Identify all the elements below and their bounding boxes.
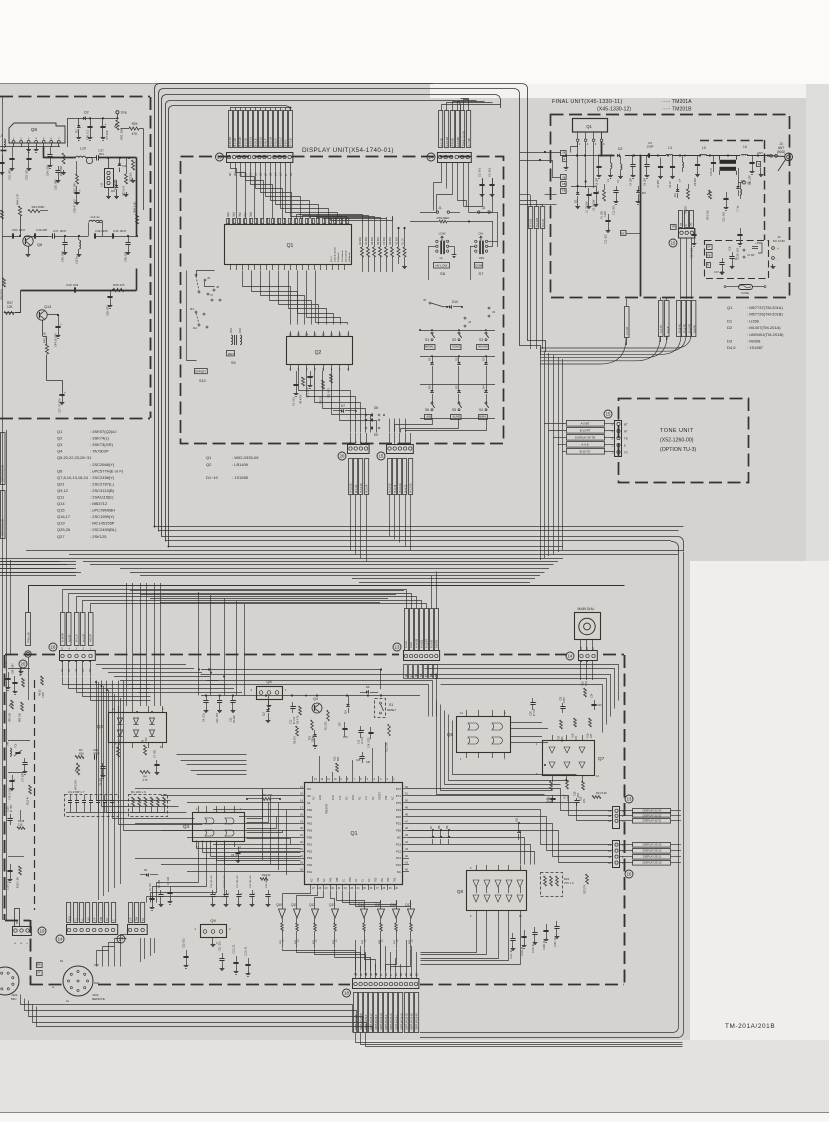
svg-text:C6 18P: C6 18P bbox=[644, 178, 647, 186]
jack J1 SP bbox=[743, 249, 745, 251]
svg-text:Q25,26: Q25,26 bbox=[57, 527, 71, 532]
svg-text:: TA7302P: : TA7302P bbox=[90, 449, 109, 454]
page edge line bottom bbox=[0, 1112, 829, 1114]
svg-text:R54 3.3K: R54 3.3K bbox=[133, 202, 137, 213]
connector 13 lower pin bar bbox=[404, 651, 440, 661]
svg-text:J11: J11 bbox=[193, 326, 198, 330]
capacitor C34 .022 bbox=[50, 147, 52, 155]
wires buffers to bottom connector bbox=[283, 949, 356, 971]
svg-text:23: 23 bbox=[300, 847, 303, 851]
svg-text:R14: R14 bbox=[558, 735, 561, 740]
svg-text:J3: J3 bbox=[492, 310, 495, 314]
svg-text:4D: 4D bbox=[228, 173, 232, 176]
svg-text:AL/M5: AL/M5 bbox=[452, 414, 460, 418]
svg-text:50: 50 bbox=[405, 799, 408, 803]
svg-text:(50Ω): (50Ω) bbox=[777, 150, 785, 154]
nested wire loops left of Q6 bbox=[437, 701, 545, 795]
control rail wire bbox=[201, 695, 420, 697]
resistor R9 470K bbox=[302, 377, 305, 386]
IC Q7 buffers bbox=[543, 741, 595, 776]
electrolytic C1 10/16V bbox=[588, 188, 590, 194]
svg-text:R8 330: R8 330 bbox=[389, 237, 392, 245]
svg-text:R44 2.7K: R44 2.7K bbox=[16, 194, 20, 205]
svg-text:TB: TB bbox=[624, 437, 628, 441]
svg-text:+: + bbox=[105, 123, 107, 127]
capacitor C35 .082 bbox=[58, 166, 60, 171]
capacitor C22 470P bbox=[562, 703, 564, 707]
junction dots texture bbox=[198, 669, 200, 671]
svg-text:FINAL UNIT(X45-1330-11): FINAL UNIT(X45-1330-11) bbox=[552, 99, 623, 105]
svg-text:DO: DO bbox=[87, 917, 90, 921]
wires Q1 bottom to buffers bbox=[283, 891, 311, 901]
svg-text:COM: COM bbox=[475, 263, 483, 267]
svg-text:DISPLAY-25-10: DISPLAY-25-10 bbox=[643, 861, 662, 865]
svg-text:+: + bbox=[79, 189, 81, 193]
svg-text:10: 10 bbox=[338, 332, 342, 336]
diode D6 ctrl bbox=[360, 692, 366, 694]
capacitor C37 .001 bbox=[93, 157, 97, 159]
resistor R13 82K bbox=[336, 763, 339, 772]
svg-text:C15 .001: C15 .001 bbox=[723, 211, 726, 222]
svg-text:: MC145155P: : MC145155P bbox=[90, 521, 115, 526]
svg-text:D1 Anode: D1 Anode bbox=[337, 252, 340, 262]
diode D2 final bbox=[617, 154, 619, 158]
keypad matrix wires bbox=[420, 330, 495, 332]
svg-text:41: 41 bbox=[405, 861, 408, 865]
svg-text:24: 24 bbox=[300, 854, 303, 858]
wires Q8 bottom to bottom bank bbox=[421, 917, 477, 953]
svg-text:Q2: Q2 bbox=[97, 724, 104, 729]
potentiometer VR1 50K bbox=[76, 763, 79, 775]
svg-text:82K: 82K bbox=[79, 752, 84, 756]
fuse bbox=[739, 285, 753, 290]
boxed pin B bbox=[707, 263, 711, 268]
connector 15 below display unit bbox=[387, 445, 414, 454]
svg-text:NC: NC bbox=[392, 796, 395, 800]
svg-text:C36 47 16V: C36 47 16V bbox=[73, 199, 77, 213]
svg-text:+T: +T bbox=[755, 241, 759, 245]
svg-text:VR1 100: VR1 100 bbox=[707, 210, 710, 220]
thick wire lower RX path bbox=[21, 290, 137, 292]
svg-text:51: 51 bbox=[405, 792, 408, 796]
svg-text:10 10V: 10 10V bbox=[362, 736, 364, 744]
capacitor C46 120P bbox=[94, 233, 96, 238]
svg-text:C76 10 16V: C76 10 16V bbox=[10, 787, 12, 800]
svg-text:CL2: CL2 bbox=[339, 795, 342, 800]
svg-text:C10 .001: C10 .001 bbox=[216, 712, 219, 723]
svg-text:NC: NC bbox=[397, 870, 401, 874]
svg-text:C117 .01: C117 .01 bbox=[510, 949, 513, 959]
svg-text:A/B: A/B bbox=[427, 414, 431, 418]
svg-text:BT: BT bbox=[624, 423, 628, 427]
capacitor C2 1/50V bbox=[310, 371, 312, 376]
svg-text:+: + bbox=[64, 391, 66, 395]
nested wire loops around Q6 Q7 bbox=[421, 665, 619, 701]
svg-text:Q2: Q2 bbox=[262, 712, 266, 716]
connector 20 below display unit bbox=[348, 445, 370, 454]
Q1 bottom pin stubs bbox=[230, 264, 232, 270]
diode D4 ctrl bbox=[346, 704, 350, 706]
wires from display bottom strips to bus bbox=[350, 495, 352, 551]
capacitor C48 .068 bbox=[64, 236, 66, 243]
resistor bank R3-R8 330 vertical bbox=[362, 222, 364, 247]
connector 13 strip bank bbox=[229, 111, 233, 148]
svg-text:L3: L3 bbox=[668, 146, 672, 150]
crystal filter L11 bbox=[105, 169, 114, 188]
svg-text:DISPLAY-22-31: DISPLAY-22-31 bbox=[643, 819, 662, 823]
svg-text:HI/ LOW: HI/ LOW bbox=[435, 263, 447, 267]
svg-text:P61: P61 bbox=[307, 815, 313, 819]
svg-text:NC: NC bbox=[307, 787, 311, 791]
svg-text:R109 1.8K: R109 1.8K bbox=[18, 877, 20, 888]
svg-text:R8 27K: R8 27K bbox=[294, 736, 297, 744]
wire label strips B-10 B-11 group bbox=[677, 301, 681, 337]
remote jack J102 bbox=[63, 966, 93, 996]
svg-text:S4: S4 bbox=[479, 408, 483, 412]
svg-text:DISPLAY-23-16: DISPLAY-23-16 bbox=[380, 1013, 383, 1030]
svg-text:Dig4: Dig4 bbox=[227, 211, 230, 217]
svg-text:DISPLAY-21-3B: DISPLAY-21-3B bbox=[2, 519, 5, 536]
svg-text:FB: FB bbox=[707, 253, 711, 257]
svg-text:8W: 8W bbox=[37, 962, 41, 966]
svg-text:FINAL-06: FINAL-06 bbox=[28, 632, 31, 643]
capacitor C5 .001 bbox=[492, 178, 494, 184]
capacitor C76 10 16V bbox=[12, 775, 14, 780]
coil L5 bbox=[700, 154, 707, 155]
svg-text:LD: LD bbox=[396, 973, 398, 976]
Q1 right pins bbox=[403, 788, 409, 790]
svg-text:MIC: MIC bbox=[11, 997, 17, 1001]
svg-text:13: 13 bbox=[313, 332, 317, 336]
wire grid horizontal runs upper control unit bbox=[96, 664, 186, 666]
svg-text:J2: J2 bbox=[482, 206, 486, 210]
svg-text:: 2SK125: : 2SK125 bbox=[90, 534, 107, 539]
capacitor C8 .01 bbox=[238, 847, 240, 852]
capacitors C19 C18 C17 C16 row bbox=[212, 890, 214, 895]
svg-text:RESET: RESET bbox=[387, 708, 396, 712]
svg-text:C39 .033: C39 .033 bbox=[106, 305, 110, 316]
resistor R2 330 R1 1K right of Q1 bbox=[398, 227, 400, 247]
svg-text:DC 13.8V: DC 13.8V bbox=[773, 239, 785, 243]
svg-text:L12 1u: L12 1u bbox=[91, 215, 100, 219]
capacitor C57 .47/35V bbox=[62, 390, 64, 394]
svg-text:S1: S1 bbox=[307, 801, 311, 805]
svg-text:TONE UNIT: TONE UNIT bbox=[660, 428, 694, 434]
svg-text:B-4-12: B-4-12 bbox=[403, 484, 407, 492]
capacitor C5 18P bbox=[598, 162, 600, 166]
extra TONE bank drops bbox=[431, 576, 433, 609]
wire staircase Q1 to Q2 bbox=[243, 271, 291, 325]
svg-text:C105: C105 bbox=[8, 806, 10, 812]
microphone jack J101 bbox=[0, 967, 19, 995]
svg-text:C48 .068: C48 .068 bbox=[61, 251, 65, 262]
svg-text:B-9-10B: B-9-10B bbox=[536, 217, 539, 227]
svg-text:P32: P32 bbox=[396, 815, 402, 819]
svg-text:R1 1K: R1 1K bbox=[401, 238, 404, 245]
svg-text:NC: NC bbox=[397, 836, 401, 840]
capacitor C14 .0322 v2 bbox=[370, 727, 372, 732]
svg-text:Q2: Q2 bbox=[57, 436, 63, 441]
coil L1 bbox=[611, 163, 612, 169]
Q2 bottom pins bbox=[290, 365, 292, 371]
svg-text:: LB1409: : LB1409 bbox=[232, 462, 249, 467]
svg-text:RX: RX bbox=[621, 232, 625, 235]
svg-text:: M1407(TM-201A): : M1407(TM-201A) bbox=[747, 325, 781, 330]
svg-text:20: 20 bbox=[340, 454, 345, 459]
svg-text:R3 330: R3 330 bbox=[359, 237, 362, 245]
svg-text:C16 .001: C16 .001 bbox=[737, 247, 740, 258]
emitter resistors R25-R32 33 bbox=[281, 923, 284, 931]
svg-text:D3: D3 bbox=[642, 191, 646, 195]
connector 24 circled number bbox=[427, 153, 435, 161]
svg-text:TC6: TC6 bbox=[16, 743, 18, 748]
svg-text:Q19: Q19 bbox=[57, 521, 65, 526]
svg-text:Q27: Q27 bbox=[57, 534, 65, 539]
wires switch region bbox=[187, 271, 197, 361]
svg-text:E: E bbox=[624, 444, 626, 448]
svg-text:Q7,8,10,13,18,24: Q7,8,10,13,18,24 bbox=[57, 475, 89, 480]
svg-text:S2: S2 bbox=[452, 338, 456, 342]
svg-text:R1 10K x 6: R1 10K x 6 bbox=[131, 790, 146, 794]
svg-text:Q9: Q9 bbox=[210, 918, 216, 923]
svg-text:: 1S1587: : 1S1587 bbox=[747, 345, 764, 350]
svg-text:RT: RT bbox=[680, 222, 683, 226]
diode D4 final bbox=[676, 189, 680, 191]
svg-text:R43 560K: R43 560K bbox=[32, 205, 45, 209]
svg-text:15: 15 bbox=[297, 332, 301, 336]
coil L12 1u bbox=[89, 220, 103, 222]
capacitor C11 33/16V bbox=[232, 696, 234, 702]
wire final unit bend bundle bbox=[540, 338, 626, 364]
svg-text:C50 .0047: C50 .0047 bbox=[12, 228, 26, 232]
svg-text:L5: L5 bbox=[702, 146, 706, 150]
svg-text:DISPLAY-22-32: DISPLAY-22-32 bbox=[643, 814, 662, 818]
display unit nested bus loop 5 bbox=[169, 106, 291, 547]
svg-text:P12: P12 bbox=[396, 849, 402, 853]
svg-text:A-13-2B: A-13-2B bbox=[445, 137, 449, 147]
svg-text:VR1 50K: VR1 50K bbox=[75, 780, 78, 790]
svg-text:B-16-4D: B-16-4D bbox=[228, 137, 232, 147]
control unit dashed border left bottom jog bbox=[5, 920, 30, 922]
Q1 left pins bbox=[299, 788, 305, 790]
svg-text:R6 33: R6 33 bbox=[39, 689, 42, 696]
left edge wires into bus bbox=[0, 561, 60, 563]
svg-text:B-14-LG: B-14-LG bbox=[248, 137, 252, 147]
svg-text:B-1-EG: B-1-EG bbox=[529, 219, 532, 227]
svg-text:C1 10 16V: C1 10 16V bbox=[586, 201, 589, 213]
diode D11 bbox=[517, 830, 521, 832]
svg-text:45: 45 bbox=[405, 833, 408, 837]
svg-text:: 3SK74(L): : 3SK74(L) bbox=[90, 436, 110, 441]
svg-text:1/2W: 1/2W bbox=[604, 211, 607, 217]
jack J3 bbox=[488, 307, 490, 309]
jack J6 bbox=[429, 302, 431, 304]
switch S7 label box bbox=[475, 263, 483, 269]
svg-text:20: 20 bbox=[300, 826, 303, 830]
svg-text:NC: NC bbox=[312, 796, 315, 800]
svg-text:Dig3: Dig3 bbox=[233, 211, 236, 217]
svg-text:14: 14 bbox=[300, 785, 303, 789]
IC Q6 gates bbox=[457, 717, 511, 753]
svg-text:17: 17 bbox=[119, 937, 124, 942]
svg-text:D1: D1 bbox=[573, 199, 577, 203]
transistor Q4 bbox=[312, 703, 322, 713]
svg-text:15: 15 bbox=[671, 241, 676, 246]
svg-text:C45 .0047: C45 .0047 bbox=[113, 229, 127, 233]
svg-text:S3: S3 bbox=[479, 338, 483, 342]
svg-text:C17 .001: C17 .001 bbox=[714, 270, 725, 274]
svg-text:B-12-13: B-12-13 bbox=[398, 483, 402, 493]
svg-text:D2: D2 bbox=[84, 111, 89, 115]
svg-text:P31: P31 bbox=[396, 822, 402, 826]
svg-text:B-15-32: B-15-32 bbox=[349, 483, 353, 493]
svg-text:TONE-13~19: TONE-13~19 bbox=[461, 131, 465, 147]
horizontal bus band wires bbox=[26, 550, 684, 552]
svg-text:C28 100 16V: C28 100 16V bbox=[266, 875, 268, 888]
svg-text:27K: 27K bbox=[583, 798, 586, 803]
svg-text:ON: ON bbox=[478, 232, 483, 236]
potentiometer VR1 10K bbox=[116, 120, 119, 130]
connector 13 pin bar bbox=[227, 153, 293, 163]
svg-text:52: 52 bbox=[405, 785, 408, 789]
display unit nested bus loop 4 bbox=[166, 101, 461, 542]
electrolytic C2 10/16V bbox=[596, 186, 598, 192]
diode D10 bbox=[444, 306, 449, 308]
svg-text:C3 .022: C3 .022 bbox=[168, 876, 170, 885]
svg-text:MS: MS bbox=[431, 673, 433, 677]
svg-text:NC: NC bbox=[310, 878, 313, 882]
svg-text:R2 22K: R2 22K bbox=[685, 205, 688, 214]
capacitor C4 18P bbox=[632, 156, 634, 166]
svg-text:Q7: Q7 bbox=[598, 756, 605, 761]
resistor R2 22K bbox=[687, 189, 690, 199]
resistor array R22 27Kx3 bbox=[541, 873, 563, 897]
svg-text:D10: D10 bbox=[452, 300, 458, 304]
svg-text:R9 470K: R9 470K bbox=[300, 394, 303, 404]
capacitor C6 .001 bbox=[102, 763, 104, 767]
svg-text:470P: 470P bbox=[563, 697, 566, 703]
ground Q6 pins bbox=[28, 147, 30, 149]
IC Q1 display driver bbox=[225, 225, 352, 265]
svg-text:D4: D4 bbox=[344, 710, 348, 714]
boxed label RX bbox=[621, 231, 627, 236]
svg-text:P13: P13 bbox=[396, 842, 402, 846]
boxed pin E antenna bbox=[757, 162, 761, 167]
svg-text:MAIN DIAL: MAIN DIAL bbox=[578, 607, 595, 611]
svg-text:47: 47 bbox=[405, 819, 408, 823]
vertical wire drops into Q2 area bbox=[126, 583, 128, 706]
bottom bank exit wires bbox=[356, 1033, 683, 1043]
svg-text:A-7-9B: A-7-9B bbox=[467, 138, 471, 146]
diode D8 pair bbox=[365, 414, 367, 416]
boxed pin E final bbox=[563, 157, 567, 162]
svg-text:C3 .001: C3 .001 bbox=[478, 167, 482, 177]
page edge line top bbox=[0, 83, 433, 85]
svg-text:Q10: Q10 bbox=[276, 903, 282, 907]
svg-text:SB: SB bbox=[416, 673, 418, 677]
svg-text:-: - bbox=[777, 257, 778, 261]
svg-text:R12 10K: R12 10K bbox=[386, 742, 389, 752]
svg-text:C49 22P: C49 22P bbox=[36, 228, 47, 232]
svg-text:B-15-2D: B-15-2D bbox=[238, 137, 242, 147]
left interior vertical bundle bbox=[98, 682, 100, 900]
svg-text:P60: P60 bbox=[307, 808, 313, 812]
connector 18 bank bbox=[61, 613, 66, 646]
wire fan from connector 18 into unit bbox=[63, 677, 151, 685]
capacitor C10b 1P bbox=[713, 156, 715, 163]
svg-text:: 2SC2458(Y): : 2SC2458(Y) bbox=[90, 475, 115, 480]
svg-text:12K: 12K bbox=[7, 305, 14, 309]
TX/RX unit dashed border bbox=[0, 96, 150, 98]
svg-text:Q21: Q21 bbox=[57, 481, 65, 486]
connector 13 display-22 bbox=[613, 807, 620, 829]
svg-text:15: 15 bbox=[379, 454, 384, 459]
svg-text:B-6-G: B-6-G bbox=[284, 140, 288, 147]
wires from bar 24 into display unit bbox=[441, 163, 443, 183]
boxed pin FB1 bbox=[561, 182, 567, 187]
resistor R3 100K bbox=[117, 747, 120, 757]
potentiometer VR6 10K bbox=[11, 700, 14, 709]
svg-text:20: 20 bbox=[21, 662, 26, 667]
svg-text:P52: P52 bbox=[307, 849, 313, 853]
svg-text:C18: C18 bbox=[729, 246, 732, 251]
svg-text:B-9-FB: B-9-FB bbox=[542, 219, 545, 227]
svg-text:27K: 27K bbox=[590, 733, 593, 738]
svg-text:D7: D7 bbox=[341, 404, 345, 408]
svg-text:FB: FB bbox=[562, 182, 566, 186]
jack J4 bbox=[464, 317, 466, 319]
svg-text:A-3-SQ: A-3-SQ bbox=[420, 640, 423, 648]
stripline transformer bbox=[720, 160, 737, 164]
junction dots display unit bbox=[431, 329, 433, 331]
capacitor C6 18P bbox=[646, 156, 648, 166]
svg-text:TP5: TP5 bbox=[120, 111, 126, 115]
wires switch matrix to connectors bbox=[395, 419, 433, 433]
svg-text:17: 17 bbox=[300, 806, 303, 810]
svg-text:22: 22 bbox=[300, 840, 303, 844]
Q1 top pin risers bbox=[319, 756, 321, 776]
test point TP final bbox=[743, 181, 746, 184]
svg-text:R23 27K: R23 27K bbox=[584, 884, 587, 894]
svg-text:M/M4: M/M4 bbox=[479, 414, 486, 418]
wires Q3 bottom to connector 17 bbox=[157, 847, 199, 903]
svg-text:21: 21 bbox=[300, 833, 303, 837]
capacitor C50 .0047 bbox=[2, 236, 12, 238]
svg-text:VSS: VSS bbox=[349, 877, 352, 882]
svg-text:J4: J4 bbox=[468, 320, 471, 324]
svg-text:D5: D5 bbox=[338, 722, 342, 726]
resistor R16 27K bbox=[589, 718, 592, 727]
coil L46 bbox=[10, 748, 11, 756]
connector 18 wires bend right to TONE bank bbox=[63, 590, 407, 613]
left strip wires bbox=[8, 668, 30, 670]
svg-text:: 3SK73(GR): : 3SK73(GR) bbox=[90, 442, 114, 447]
svg-text:14: 14 bbox=[568, 654, 573, 659]
svg-text:D9: D9 bbox=[445, 825, 449, 829]
svg-text:R4 330: R4 330 bbox=[365, 237, 368, 245]
svg-text:D2: D2 bbox=[455, 357, 459, 361]
svg-text:DISPLAY-25-13: DISPLAY-25-13 bbox=[643, 843, 662, 847]
capacitor C20 .001 bbox=[186, 950, 188, 956]
svg-text:C106 .001: C106 .001 bbox=[8, 879, 10, 890]
wires Q1 top pads to resistors bbox=[297, 215, 363, 223]
svg-text:16: 16 bbox=[300, 799, 303, 803]
RF module pin 4 thick bbox=[601, 133, 603, 140]
svg-text:RESET: RESET bbox=[378, 791, 381, 800]
boxed pin SP bbox=[707, 245, 713, 250]
svg-text:: MB3712: : MB3712 bbox=[90, 501, 108, 506]
svg-text:P73: P73 bbox=[385, 795, 388, 800]
